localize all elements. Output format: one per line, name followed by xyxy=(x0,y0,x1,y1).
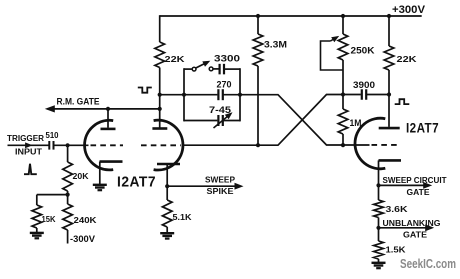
svg-text:22K: 22K xyxy=(397,54,418,64)
svg-text:20K: 20K xyxy=(73,171,90,181)
svg-text:270: 270 xyxy=(217,80,232,90)
svg-text:TRIGGER: TRIGGER xyxy=(7,133,45,143)
svg-text:240K: 240K xyxy=(74,215,98,225)
svg-text:SWEEP CIRCUIT: SWEEP CIRCUIT xyxy=(383,175,448,185)
svg-text:-300V: -300V xyxy=(70,234,96,244)
svg-text:I2AT7: I2AT7 xyxy=(117,174,156,190)
svg-text:3.6K: 3.6K xyxy=(386,204,409,214)
svg-text:22K: 22K xyxy=(165,54,186,64)
svg-text:3900: 3900 xyxy=(353,80,375,90)
svg-text:SeekIC.com: SeekIC.com xyxy=(400,256,456,271)
svg-text:250K: 250K xyxy=(351,46,376,56)
svg-text:510: 510 xyxy=(46,131,59,140)
svg-text:R.M. GATE: R.M. GATE xyxy=(57,97,100,107)
svg-text:+300V: +300V xyxy=(392,4,426,16)
svg-text:3.3M: 3.3M xyxy=(264,40,287,50)
svg-text:7-45: 7-45 xyxy=(209,104,231,115)
svg-text:GATE: GATE xyxy=(403,230,427,240)
svg-text:15K: 15K xyxy=(42,214,57,224)
svg-text:5.1K: 5.1K xyxy=(173,212,192,222)
svg-text:INPUT: INPUT xyxy=(15,147,43,157)
svg-text:I2AT7: I2AT7 xyxy=(406,120,439,136)
svg-text:SWEEP: SWEEP xyxy=(205,174,235,184)
svg-text:1.5K: 1.5K xyxy=(386,245,407,255)
svg-text:UNBLANKING: UNBLANKING xyxy=(383,218,441,228)
svg-text:3300: 3300 xyxy=(214,54,240,64)
svg-text:GATE: GATE xyxy=(407,187,430,197)
svg-text:SPIKE: SPIKE xyxy=(207,186,234,196)
